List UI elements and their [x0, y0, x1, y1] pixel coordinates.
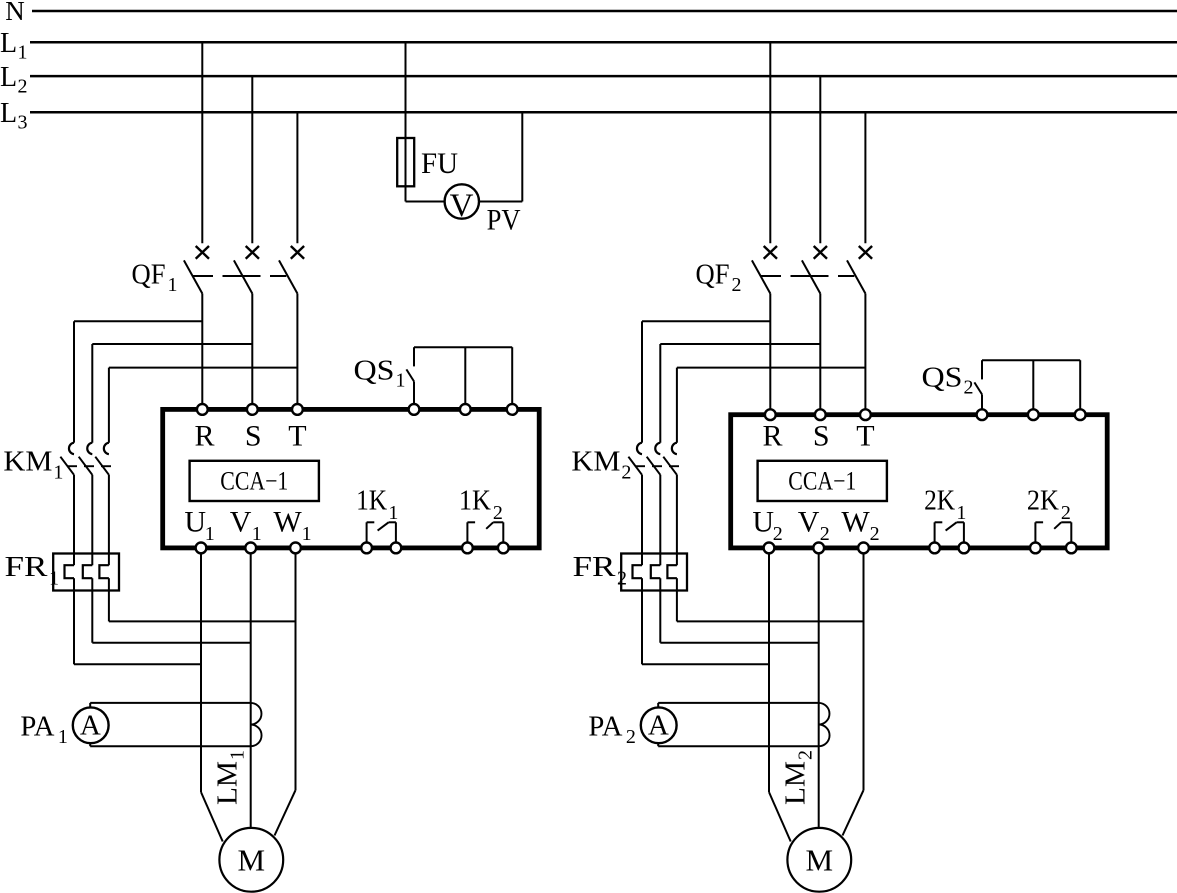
svg-text:1: 1: [396, 370, 406, 392]
svg-text:1: 1: [227, 750, 249, 760]
svg-text:2: 2: [964, 377, 974, 399]
svg-text:QS: QS: [922, 362, 963, 394]
svg-text:W: W: [273, 506, 302, 539]
svg-text:1: 1: [49, 567, 59, 589]
svg-text:FU: FU: [421, 147, 458, 180]
svg-text:A: A: [80, 710, 101, 742]
svg-text:S: S: [245, 419, 262, 452]
svg-text:1: 1: [58, 726, 68, 748]
svg-text:2: 2: [621, 461, 631, 483]
svg-text:1: 1: [302, 523, 312, 545]
svg-text:1: 1: [205, 523, 215, 545]
svg-text:U: U: [184, 506, 206, 539]
svg-text:KM: KM: [3, 446, 52, 478]
svg-text:KM: KM: [571, 446, 620, 478]
svg-text:FR: FR: [573, 551, 617, 583]
svg-text:2: 2: [773, 523, 783, 545]
svg-text:2: 2: [18, 75, 28, 97]
svg-text:M: M: [238, 843, 266, 878]
svg-text:A: A: [648, 710, 669, 742]
svg-text:CCA−1: CCA−1: [788, 466, 856, 495]
svg-text:L: L: [0, 98, 17, 129]
svg-text:R: R: [194, 419, 214, 452]
svg-text:V: V: [450, 188, 474, 224]
svg-text:1: 1: [956, 502, 966, 524]
svg-text:2K: 2K: [1027, 485, 1059, 517]
svg-text:W: W: [841, 506, 870, 539]
svg-text:2: 2: [617, 567, 627, 589]
svg-text:2: 2: [626, 726, 636, 748]
svg-text:2: 2: [1061, 502, 1071, 524]
svg-text:2: 2: [820, 523, 830, 545]
svg-text:FR: FR: [5, 551, 49, 583]
svg-text:1K: 1K: [356, 485, 387, 517]
svg-text:L: L: [0, 62, 17, 93]
svg-text:R: R: [762, 419, 782, 452]
svg-text:LM: LM: [781, 761, 812, 805]
svg-text:QF: QF: [696, 258, 730, 290]
svg-text:3: 3: [18, 112, 28, 134]
svg-text:CCA−1: CCA−1: [220, 466, 288, 495]
svg-text:PV: PV: [487, 204, 521, 237]
svg-text:2: 2: [493, 502, 503, 524]
svg-text:V: V: [798, 506, 820, 539]
svg-text:1: 1: [18, 42, 28, 64]
svg-text:QS: QS: [354, 355, 395, 387]
svg-text:M: M: [806, 843, 834, 878]
svg-text:PA: PA: [588, 710, 622, 742]
svg-text:1K: 1K: [459, 485, 491, 517]
svg-text:QF: QF: [132, 258, 166, 290]
svg-text:1: 1: [168, 274, 178, 296]
svg-text:N: N: [5, 0, 25, 26]
svg-text:U: U: [752, 506, 774, 539]
svg-text:1: 1: [388, 502, 398, 524]
svg-text:2: 2: [732, 274, 742, 296]
svg-text:LM: LM: [213, 761, 244, 805]
svg-text:T: T: [288, 419, 306, 452]
svg-text:2: 2: [870, 523, 880, 545]
svg-text:T: T: [856, 419, 874, 452]
svg-text:2: 2: [795, 750, 817, 760]
svg-text:S: S: [813, 419, 830, 452]
svg-text:1: 1: [252, 523, 262, 545]
svg-text:1: 1: [53, 461, 63, 483]
svg-text:PA: PA: [20, 710, 54, 742]
svg-text:L: L: [0, 28, 17, 59]
svg-text:2K: 2K: [924, 485, 955, 517]
svg-text:V: V: [230, 506, 252, 539]
